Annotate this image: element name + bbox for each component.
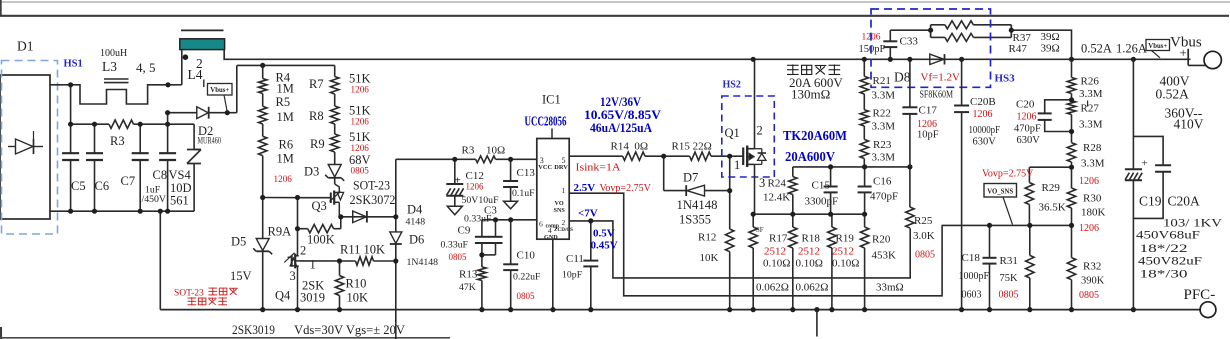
heatsink HS3 dashed outline (871, 9, 991, 87)
svg-text:0805: 0805 (999, 290, 1019, 301)
wire lower input bus (50, 210, 194, 212)
svg-text:0.062Ω: 0.062Ω (796, 282, 829, 294)
inductor L4 core bar (180, 39, 225, 50)
svg-text:Q4: Q4 (275, 289, 291, 303)
svg-text:39Ω: 39Ω (1041, 31, 1060, 43)
net flag Vbus+ at output (1146, 40, 1170, 51)
svg-text:0805: 0805 (351, 166, 370, 176)
svg-text:R18: R18 (802, 233, 821, 245)
capacitor C17 column (909, 59, 911, 106)
capacitor C11 (590, 221, 592, 260)
svg-text:R13: R13 (459, 269, 478, 281)
resistor R30 (1071, 167, 1073, 188)
svg-text:R11 10K: R11 10K (340, 243, 385, 257)
svg-text:0805: 0805 (1079, 290, 1099, 301)
diode D7 (687, 185, 705, 196)
page frame bottom line (0, 337, 450, 339)
svg-text:180K: 180K (1081, 207, 1106, 219)
svg-text:VCC: VCC (538, 164, 552, 171)
capacitor C8 (167, 113, 169, 153)
capacitor C20 parallel loop (1045, 100, 1072, 113)
svg-text:R3: R3 (110, 134, 125, 148)
svg-text:2: 2 (562, 218, 566, 227)
svg-text:0.22uF: 0.22uF (513, 272, 541, 283)
svg-text:3.3M: 3.3M (872, 90, 896, 102)
mosfet Q3 (306, 197, 330, 199)
svg-text:630V: 630V (1017, 135, 1041, 146)
svg-text:C11: C11 (566, 253, 584, 265)
svg-text:Vovp=2.75V: Vovp=2.75V (982, 169, 1034, 180)
svg-text:1206: 1206 (973, 109, 993, 120)
varistor VS4 (194, 149, 201, 151)
svg-text:R27: R27 (1081, 103, 1100, 115)
svg-text:36.5K: 36.5K (1039, 202, 1066, 214)
svg-text:3: 3 (290, 269, 296, 283)
capacitor C33 branch (889, 48, 891, 60)
resistor R9A 100K row (298, 228, 308, 230)
svg-text:ZCD/CS: ZCD/CS (554, 227, 573, 233)
svg-text:0805: 0805 (915, 250, 935, 261)
svg-text:L4: L4 (188, 67, 203, 82)
svg-text:2SK3019: 2SK3019 (232, 322, 275, 337)
svg-text:0.45V: 0.45V (591, 240, 618, 252)
svg-text:Vds=30V Vgs=± 20V: Vds=30V Vgs=± 20V (294, 322, 406, 337)
junction dots top bus (862, 57, 867, 62)
svg-text:D3: D3 (304, 165, 319, 179)
svg-text:VO: VO (555, 200, 564, 207)
svg-text:C8: C8 (153, 168, 168, 182)
svg-text:1S355: 1S355 (679, 213, 711, 227)
svg-text:12.4K: 12.4K (763, 192, 790, 204)
net flag Vbus+ at L4 (203, 80, 205, 88)
svg-text:0.10Ω: 0.10Ω (763, 258, 790, 270)
wire ground bus (160, 309, 1200, 311)
svg-text:4148: 4148 (406, 217, 426, 228)
leader line Vbus+ flag to D2 cathode (224, 95, 227, 112)
wire C9-C3 bottoms (482, 254, 496, 256)
svg-text:51K: 51K (349, 104, 371, 118)
svg-text:3: 3 (759, 176, 765, 190)
capacitor C15 (830, 167, 832, 186)
svg-text:100uH: 100uH (100, 48, 127, 59)
heatsink HS2 dashed outline (722, 96, 775, 177)
svg-text:2512: 2512 (764, 246, 786, 258)
svg-text:0.10Ω: 0.10Ω (832, 258, 859, 270)
resistor R8 (334, 94, 336, 106)
svg-text:C10: C10 (517, 250, 536, 262)
svg-text:R47: R47 (1009, 43, 1028, 55)
svg-text:R22: R22 (873, 108, 891, 120)
output capacitor C19 branch (1132, 59, 1134, 169)
resistor R18 (792, 214, 794, 227)
inductor L4 left winding lead (181, 50, 183, 85)
svg-text:R19: R19 (836, 233, 855, 245)
svg-text:0.10Ω: 0.10Ω (796, 258, 823, 270)
svg-text:Isink=1A: Isink=1A (576, 163, 622, 174)
svg-text:390K: 390K (1081, 276, 1105, 287)
capacitor C18 (989, 225, 991, 257)
svg-text:D6: D6 (409, 233, 424, 247)
wire VCC rail (396, 158, 476, 160)
svg-text:1000pF: 1000pF (959, 271, 990, 282)
svg-text:1M: 1M (277, 110, 294, 124)
svg-text:100K: 100K (307, 233, 335, 247)
page frame top thin line (0, 1, 1230, 3)
capacitor C16 (864, 167, 866, 186)
svg-text:C12: C12 (466, 170, 484, 182)
svg-text:3300pF: 3300pF (805, 196, 839, 208)
capacitor C12 electrolytic (454, 159, 456, 184)
svg-text:UCC28056: UCC28056 (525, 114, 567, 129)
svg-text:R28: R28 (1083, 142, 1102, 154)
svg-text:D5: D5 (231, 235, 246, 249)
svg-text:C16: C16 (873, 176, 892, 188)
junction dot C11 top (588, 218, 593, 223)
junction dots comp network (452, 157, 457, 162)
inductor L3 (71, 85, 168, 104)
svg-text:3.3M: 3.3M (872, 121, 896, 133)
capacitor C7 (139, 124, 141, 152)
capacitor C9 (481, 220, 483, 236)
resistor R5 (262, 94, 264, 107)
svg-text:103/ 1KV: 103/ 1KV (1163, 218, 1223, 230)
page frame bottom-left border (0, 327, 2, 339)
svg-text:IC1: IC1 (542, 93, 561, 107)
resistor R22 (863, 94, 865, 110)
svg-text:453K: 453K (872, 250, 897, 262)
label selection note (787, 64, 799, 66)
svg-text:3.3M: 3.3M (1079, 119, 1103, 131)
resistor R28 (1067, 143, 1075, 162)
svg-text:1.26A: 1.26A (1116, 42, 1147, 56)
svg-text:39Ω: 39Ω (1041, 43, 1060, 55)
svg-text:51K: 51K (349, 130, 371, 144)
junction dots ground bus (260, 307, 265, 312)
svg-text:R9A: R9A (268, 225, 292, 239)
mosfet Q1 (742, 148, 744, 166)
svg-text:1206: 1206 (1079, 176, 1099, 187)
capacitor C6 (94, 124, 96, 152)
junction dots input section (68, 82, 73, 87)
svg-text:2.5V: 2.5V (574, 182, 596, 194)
svg-text:20A600V: 20A600V (785, 150, 835, 165)
svg-text:+: + (455, 175, 461, 187)
svg-text:R25: R25 (914, 215, 933, 227)
resistor R20 (864, 214, 866, 227)
svg-text:R9: R9 (310, 137, 325, 151)
svg-text:R32: R32 (1083, 261, 1101, 273)
svg-text:1: 1 (310, 258, 316, 272)
svg-text:D4: D4 (407, 203, 423, 217)
heatsink HS1 dashed outline (2, 61, 58, 235)
wire DRV to gate (569, 155, 622, 157)
svg-text:33mΩ: 33mΩ (876, 282, 904, 294)
svg-text:450V82uF: 450V82uF (1138, 256, 1202, 268)
svg-text:630V: 630V (973, 137, 997, 148)
svg-text:R26: R26 (1081, 76, 1100, 88)
svg-text:C18: C18 (962, 252, 981, 264)
svg-text:10pF: 10pF (562, 270, 583, 281)
svg-text:6: 6 (539, 220, 543, 229)
output capacitor C20A branch (1133, 136, 1163, 164)
diode D7 branch (663, 156, 665, 190)
IC GND pin drop (552, 239, 554, 309)
svg-text:561: 561 (170, 194, 189, 208)
zener diode D3 (328, 165, 341, 178)
svg-text:2: 2 (757, 124, 763, 138)
resistor R25 (909, 167, 911, 207)
wire Q3 source node to D4 (339, 216, 396, 218)
svg-text:R3: R3 (462, 145, 475, 157)
svg-text:0.062Ω: 0.062Ω (756, 282, 789, 294)
wire Q1 source node (752, 213, 865, 215)
svg-text:<7V: <7V (578, 208, 598, 220)
svg-text:0.33uF: 0.33uF (464, 214, 492, 225)
inductor L4 core line (181, 29, 224, 31)
diode D4 (352, 211, 354, 223)
svg-text:470pF: 470pF (1014, 124, 1041, 135)
ground arrow C13 (504, 201, 518, 209)
wire VOSNS node rail (942, 224, 1072, 226)
resistor R12 column (729, 156, 731, 229)
svg-text:C17: C17 (919, 105, 938, 117)
resistor R32 (1071, 225, 1073, 257)
svg-text:3.0K: 3.0K (913, 230, 935, 242)
wire L3 to L4 (168, 84, 182, 86)
svg-text:51K: 51K (349, 72, 371, 86)
svg-text:15V: 15V (230, 269, 252, 283)
diode D6 column (395, 159, 397, 217)
svg-text:GND: GND (544, 234, 558, 241)
svg-text:1206: 1206 (1017, 112, 1037, 123)
svg-text:46uA/125uA: 46uA/125uA (590, 120, 653, 135)
L4 polarity dot (183, 54, 189, 60)
svg-text:C9: C9 (458, 225, 471, 237)
svg-text:10pF: 10pF (917, 130, 939, 141)
svg-text:C13: C13 (517, 167, 536, 179)
capacitor C13 (510, 159, 512, 180)
wire divider mid rail (263, 197, 306, 199)
junction dots output divider (1069, 97, 1074, 102)
svg-text:DRV: DRV (554, 164, 568, 171)
svg-text:75K: 75K (1000, 273, 1019, 284)
resistor R15 (690, 152, 711, 160)
svg-text:1206: 1206 (917, 119, 937, 130)
svg-text:1: 1 (562, 186, 566, 195)
wire VS4 feed (193, 124, 195, 149)
diode D6 (390, 232, 402, 244)
svg-text:Q1: Q1 (725, 126, 740, 140)
svg-text:R23: R23 (873, 139, 892, 151)
junction dots divider area (260, 63, 265, 68)
resistor R27 (1071, 94, 1073, 101)
capacitor C5 (70, 85, 72, 153)
svg-text:450V68uF: 450V68uF (1136, 230, 1200, 242)
resistor R21 column from bus (863, 59, 865, 76)
svg-text:D7: D7 (683, 171, 698, 185)
terminal PFC- circle (1200, 302, 1216, 318)
resistor R6 (262, 124, 264, 136)
inductor L4 right winding lead (224, 50, 1190, 60)
svg-text:VO_SNS: VO_SNS (987, 189, 1013, 196)
svg-text:0.1uF: 0.1uF (512, 188, 535, 199)
svg-text:C20B: C20B (970, 96, 996, 108)
resistor R10 (339, 261, 341, 276)
resistor R3 (input) (109, 120, 134, 128)
resistor R7 (334, 65, 336, 76)
wire VOSNS pin 1 route (569, 193, 942, 296)
svg-text:0.33uF: 0.33uF (441, 240, 469, 251)
svg-text:R14 0Ω: R14 0Ω (611, 141, 649, 153)
svg-text:410V: 410V (1174, 117, 1204, 132)
svg-text:2: 2 (300, 244, 306, 258)
svg-text:R5: R5 (276, 95, 291, 109)
resistor R4 (262, 65, 264, 78)
svg-text:VS4: VS4 (169, 168, 192, 182)
svg-text:2512: 2512 (832, 246, 854, 258)
svg-text:1206: 1206 (351, 117, 370, 127)
svg-text:Vf=1.2V: Vf=1.2V (921, 72, 961, 84)
svg-text:C5: C5 (71, 179, 86, 193)
svg-text:Vbus+: Vbus+ (1148, 43, 1167, 50)
svg-text:150pF: 150pF (859, 44, 886, 55)
svg-text:C33: C33 (900, 36, 919, 48)
resistor R26 (1071, 59, 1073, 77)
resistor R31 (1029, 225, 1031, 255)
wire D2 cathode riser to ladder (236, 65, 238, 112)
wire Q3 gate column (297, 198, 299, 254)
svg-text:1N4148: 1N4148 (677, 198, 718, 212)
svg-text:R7: R7 (309, 77, 324, 91)
svg-text:10K: 10K (347, 291, 369, 305)
svg-text:/450V: /450V (142, 194, 167, 205)
svg-text:18*/22: 18*/22 (1140, 243, 1188, 255)
svg-text:1: 1 (734, 158, 740, 172)
svg-text:C20: C20 (1016, 99, 1035, 111)
svg-text:1N4148: 1N4148 (407, 257, 439, 268)
svg-text:0805: 0805 (517, 291, 536, 301)
svg-text:0603: 0603 (962, 290, 982, 301)
svg-text:SF8K60M: SF8K60M (920, 90, 954, 101)
svg-text:47K: 47K (459, 282, 476, 293)
svg-text:R8: R8 (309, 109, 324, 123)
svg-text:R6: R6 (279, 138, 294, 152)
terminal Vbus circle (1187, 49, 1189, 66)
svg-text:10Ω: 10Ω (486, 145, 505, 157)
svg-text:C7: C7 (121, 174, 136, 188)
wire R3 row (71, 123, 109, 125)
svg-text:1206: 1206 (1079, 223, 1099, 234)
wire ladder top rail (237, 64, 335, 66)
svg-text:+: + (1180, 45, 1187, 60)
svg-text:HS2: HS2 (723, 80, 741, 91)
svg-text:HS1: HS1 (64, 59, 83, 70)
resistors R37 R47 parallel pair (930, 25, 932, 38)
svg-text:R21: R21 (873, 75, 891, 87)
leader VO_SNS to node (1003, 197, 1013, 225)
svg-text:3.3M: 3.3M (1081, 158, 1105, 170)
resistor R9 (334, 124, 336, 134)
wire ZCD/CS pin 2 route (569, 221, 910, 278)
wire input bus drop to ground bus (159, 211, 161, 309)
svg-text:C6: C6 (95, 179, 110, 193)
junction dots source node (751, 57, 756, 62)
svg-text:3019: 3019 (300, 291, 325, 305)
net label box VO_SNS (984, 184, 1017, 198)
svg-text:MUR460: MUR460 (198, 136, 222, 147)
resistor R3 (VCC 10ohm) (476, 156, 496, 163)
svg-text:4, 5: 4, 5 (136, 60, 156, 75)
ground arrow C12 (447, 206, 462, 215)
wire rectifier output top (50, 84, 71, 86)
svg-text:C19: C19 (1139, 194, 1162, 209)
svg-text:C20A: C20A (1168, 194, 1201, 209)
zener diode D5 (262, 198, 264, 239)
diode D2 (168, 112, 197, 114)
resistor R14 (623, 152, 645, 160)
svg-text:SNS: SNS (554, 207, 566, 214)
bridge rectifier D1 body (0, 75, 50, 219)
svg-text:HS3: HS3 (995, 73, 1016, 85)
svg-text:PFC-: PFC- (1184, 287, 1216, 303)
capacitor C3 (495, 220, 497, 236)
svg-text:1206: 1206 (351, 143, 370, 153)
svg-text:+: + (1142, 158, 1148, 170)
wire R24/C15/C16 top rail (793, 166, 910, 168)
svg-text:SOT-23: SOT-23 (353, 179, 390, 193)
svg-text:TK20A60M: TK20A60M (783, 129, 847, 144)
svg-text:0.52A: 0.52A (1081, 42, 1112, 56)
svg-text:R29: R29 (1042, 182, 1061, 194)
svg-text:0805: 0805 (449, 252, 468, 262)
svg-text:SOT-23: SOT-23 (174, 289, 204, 299)
svg-text:1M: 1M (277, 82, 294, 96)
svg-text:18*/30: 18*/30 (1140, 269, 1188, 281)
svg-text:1206: 1206 (351, 85, 370, 95)
svg-text:R31: R31 (1000, 255, 1018, 267)
svg-text:0.5V: 0.5V (593, 228, 615, 240)
svg-text:L3: L3 (102, 59, 117, 74)
svg-text:R15 22Ω: R15 22Ω (672, 141, 712, 153)
svg-text:10K: 10K (700, 252, 719, 264)
IC U1 UCC28056 body (537, 139, 569, 240)
wire PFC- stem down (816, 310, 818, 337)
svg-text:470pF: 470pF (870, 191, 898, 203)
svg-text:D8: D8 (894, 70, 911, 85)
svg-text:1M: 1M (277, 152, 294, 166)
svg-text:R12: R12 (698, 232, 716, 244)
svg-text:1206: 1206 (466, 182, 485, 192)
svg-text:3.3M: 3.3M (872, 152, 896, 164)
wire Q4 source / R11 row (301, 260, 356, 262)
svg-text:Q3: Q3 (312, 199, 327, 213)
resistor R23 (863, 126, 865, 139)
svg-text:SF: SF (756, 227, 764, 234)
svg-text:2SK3072: 2SK3072 (350, 193, 396, 207)
svg-text:R30: R30 (1083, 193, 1102, 205)
svg-text:1206: 1206 (274, 174, 293, 184)
svg-text:2512: 2512 (798, 246, 820, 258)
svg-text:Vovp=2.75V: Vovp=2.75V (600, 183, 652, 194)
bridge rectifier internal diode (8, 146, 16, 148)
svg-text:Vbus+: Vbus+ (210, 87, 229, 94)
svg-text:10000pF: 10000pF (969, 125, 1001, 136)
wire comp pin network (482, 219, 537, 221)
svg-text:130mΩ: 130mΩ (791, 87, 830, 102)
wire pair to bus right (1011, 30, 1071, 59)
capacitor C10 (510, 220, 512, 264)
svg-text:0.52A: 0.52A (1156, 87, 1190, 102)
